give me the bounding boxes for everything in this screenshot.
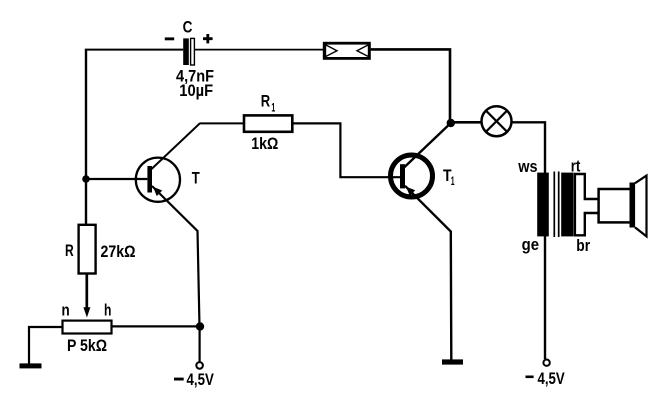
transformer secondary winding (561, 173, 573, 237)
node base junction (82, 175, 90, 183)
transistor T (136, 158, 180, 202)
potentiometer P body (63, 321, 112, 334)
capacitor C (negative plate) (183, 38, 189, 65)
transformer primary winding (537, 173, 549, 237)
label minus (165, 37, 174, 40)
earpiece right triangle (357, 45, 369, 57)
terminal -4,5V right (543, 360, 549, 366)
wire earpiece to corner and down (371, 49, 450, 123)
wire base T (86, 178, 147, 180)
svg-text:ge: ge (522, 236, 539, 254)
transformer core (554, 172, 558, 238)
ground left (20, 363, 42, 368)
lamp (482, 106, 512, 136)
earpiece left triangle (326, 45, 338, 57)
speaker body (599, 189, 632, 222)
svg-text:P 5kΩ: P 5kΩ (67, 337, 107, 355)
svg-text:10µF: 10µF (179, 82, 213, 100)
transformer secondary frame with output leads (575, 174, 599, 235)
wire lamp to transformer and down to terminal (512, 122, 546, 359)
svg-text:T: T (192, 170, 200, 188)
T emitter wire (152, 186, 200, 327)
svg-text:h: h (104, 302, 111, 320)
svg-text:R: R (261, 93, 270, 111)
wire pot left to ground (29, 327, 63, 364)
wire top-left vertical (85, 50, 87, 180)
wire pot right to junction (112, 325, 201, 327)
T emitter arrow (153, 187, 162, 196)
svg-text:1kΩ: 1kΩ (251, 135, 278, 153)
speaker cone (635, 176, 647, 237)
wire capacitor to earpiece (194, 49, 323, 51)
ground under T1 (442, 359, 463, 364)
label -4,5V right (526, 370, 565, 388)
wire top horizontal to capacitor (85, 49, 183, 51)
resistor R (79, 225, 96, 274)
svg-text:ws: ws (517, 158, 537, 176)
label R1 (261, 93, 276, 115)
wire junction to terminal left (199, 327, 201, 362)
terminal -4,5V left (196, 362, 203, 369)
svg-text:27kΩ: 27kΩ (101, 243, 136, 261)
resistor R1 (244, 115, 292, 131)
wire R1 to T collector corner (200, 122, 245, 124)
node emitter/pot junction (196, 322, 204, 330)
svg-text:1: 1 (271, 100, 275, 114)
svg-text:R: R (65, 242, 74, 260)
wiper arrow (83, 307, 90, 317)
wire R1 to T1 base (292, 123, 400, 177)
svg-text:4,5V: 4,5V (187, 371, 214, 389)
label T1 (443, 167, 455, 188)
speaker diaphragm bar (630, 183, 636, 228)
T1 collector wire (404, 123, 451, 168)
node junction collector/lamp (447, 119, 455, 127)
svg-text:br: br (576, 237, 590, 255)
svg-text:4,5V: 4,5V (538, 370, 565, 388)
svg-text:C: C (183, 19, 193, 37)
T1 emitter wire (405, 186, 451, 360)
svg-text:n: n (62, 302, 70, 320)
label -4,5V left (174, 371, 214, 389)
svg-text:rt: rt (571, 157, 581, 175)
T collector wire (151, 123, 200, 169)
label plus (203, 34, 213, 43)
earpiece capsule body (324, 43, 369, 58)
capacitor C (positive plate) (191, 38, 195, 65)
transistor T1 (391, 155, 433, 197)
wire R to potentiometer wiper (85, 274, 88, 310)
wire junction to lamp (452, 121, 481, 124)
wire junction to R (85, 179, 87, 225)
svg-text:1: 1 (451, 174, 455, 188)
T1 emitter arrow (406, 187, 415, 196)
